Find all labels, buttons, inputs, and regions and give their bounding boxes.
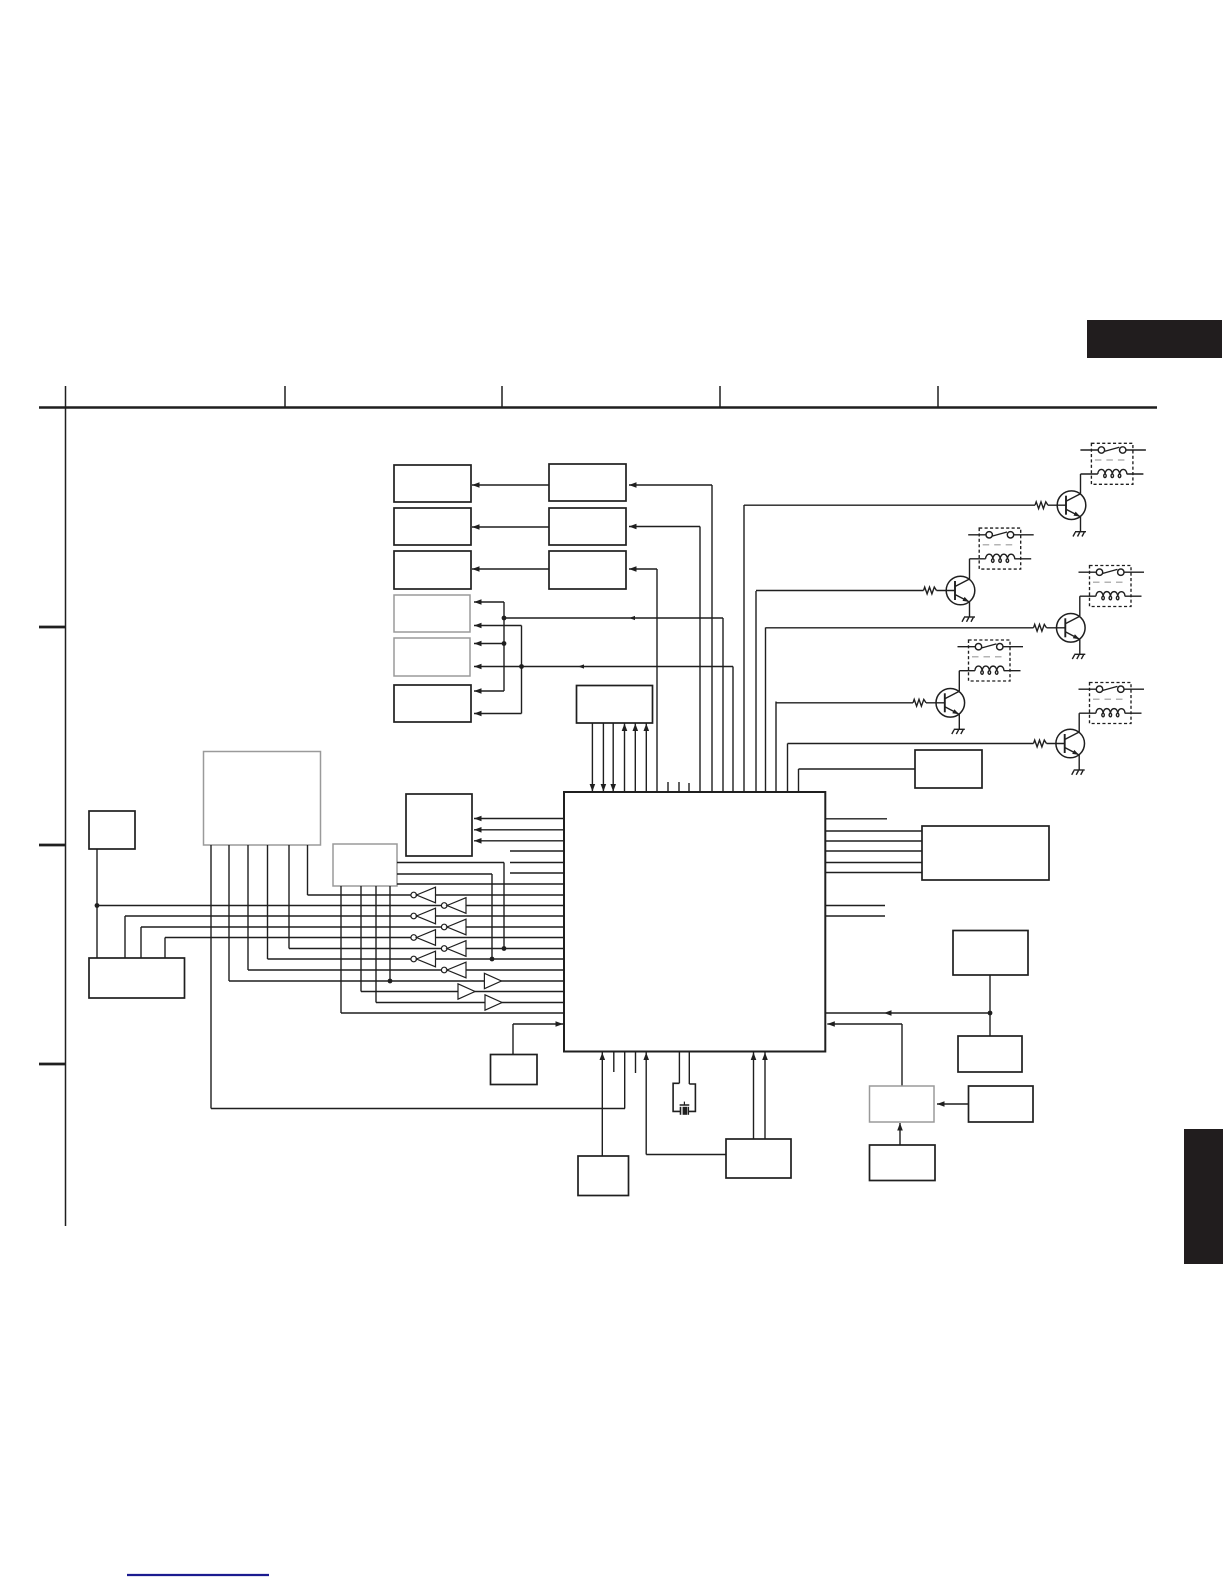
wire IC to boxR1 y=872.5 <box>825 872 922 874</box>
IC left stub y=851 <box>510 850 564 852</box>
wire IC to box-above pin x=624.5 <box>624 723 626 792</box>
wire row y=1013 <box>341 1012 564 1014</box>
wire row y=959 <box>268 958 565 960</box>
wire boxG y=862.5 down to row948.5 <box>397 862 504 864</box>
IC right pin stub y=916 <box>825 915 885 917</box>
wire boxR2 to boxR3 <box>989 975 991 1036</box>
relay RY2 <box>968 528 1033 569</box>
wire IC top to Q4 base (x=776) <box>775 702 777 793</box>
wire boxG pin to row981 <box>389 886 391 981</box>
ground GND1 <box>1073 532 1086 537</box>
wire Q2 emitter to ground <box>969 602 971 617</box>
wire Q4 base <box>776 702 913 704</box>
block: box4 (gray) <box>394 595 470 632</box>
wire coil left of RY2 to Q2 collector <box>970 558 986 560</box>
wire boxG y=884 to IC <box>397 883 564 885</box>
block: box above IC <box>577 686 653 724</box>
block: box R4 (gray) <box>870 1086 935 1122</box>
block: box R3 <box>958 1036 1022 1072</box>
left ruler tick y=627 <box>39 626 66 629</box>
wire IC to boxR1 y=862.5 <box>825 862 922 864</box>
wire boxL2 to IC (x=602) <box>601 1052 603 1157</box>
wire Q5 emitter to ground <box>1078 755 1080 770</box>
transistor Q2 <box>946 576 975 605</box>
buffer D2 <box>458 984 475 999</box>
IC bottom stub x=635.5 <box>635 1052 637 1074</box>
wire boxB to box2 <box>472 526 549 528</box>
inverter A1 <box>411 887 436 903</box>
wire Q1 base <box>744 504 1035 506</box>
block: box3 <box>394 551 471 589</box>
block: box6 <box>394 685 471 722</box>
relay RY3 <box>1079 566 1145 607</box>
wire boxL1 to IC y=1024 <box>512 1024 514 1055</box>
block: boxC <box>549 551 626 589</box>
resistor R2 <box>924 587 937 594</box>
IC left stub y=862.5 <box>510 862 564 864</box>
block: box L2 <box>578 1156 629 1196</box>
relay RY1 <box>1080 443 1146 484</box>
IC top stub pins <box>667 782 669 792</box>
wire row y=970 <box>248 969 564 971</box>
wire boxA to box1 <box>472 484 549 486</box>
left ruler tick y=1064 <box>39 1063 66 1066</box>
block: box H (lower left) <box>89 958 185 998</box>
block: box E <box>406 794 472 856</box>
wire boxG pin to row1002.5 <box>375 886 377 1003</box>
wire IC to boxE y=840.8 <box>474 840 564 842</box>
wire row y=948.5 <box>289 948 564 950</box>
wire row y=905.5 <box>97 905 564 907</box>
resistor R4 <box>913 699 926 706</box>
IC bottom stub x=613.8 <box>613 1052 615 1073</box>
resistor R1 <box>1035 502 1048 509</box>
wire branch to box4/5/6 (x=504) <box>503 602 505 691</box>
wire row y=927 <box>141 926 564 928</box>
block: box R2 <box>953 931 1028 976</box>
wire IC to boxR1 y=841 <box>825 840 922 842</box>
block: box G (gray) <box>333 844 397 886</box>
wire boxR6 to boxR4 <box>899 1123 901 1145</box>
wire to IC right y=1013 <box>825 1012 990 1014</box>
inverter A2 <box>411 908 436 924</box>
wire boxL3 to IC (x=765) <box>764 1052 766 1140</box>
wire boxF pin4 to row959 <box>267 845 269 959</box>
wire IC to box-above pin x=646.3 <box>645 723 647 792</box>
block: box R6 <box>870 1145 936 1181</box>
wire box-above to IC pin x=603.4 <box>602 723 604 792</box>
wire boxF pin1 long route to IC bottom <box>210 845 212 1109</box>
inverter B1 <box>441 898 466 914</box>
block: box L3 <box>726 1139 791 1178</box>
wire IC to boxR1 y=831 <box>825 830 922 832</box>
buffer D1 <box>484 973 501 988</box>
block: box R0 (relay area) <box>915 750 982 788</box>
ruler tick x=502 <box>501 386 503 408</box>
node junction (990,1013) <box>988 1011 993 1016</box>
footer blue link line <box>127 1574 269 1576</box>
wire boxG pin to row1013 <box>340 886 342 1013</box>
wire box-above to IC pin x=592.4 <box>591 723 593 792</box>
transistor Q5 <box>1056 729 1085 758</box>
buffer D3 <box>485 995 502 1010</box>
transistor Q3 <box>1057 614 1086 643</box>
wire boxH pin to row937.5 <box>164 938 166 959</box>
wire boxF pin2 to row981 <box>228 845 230 981</box>
wire IC to boxE y=829.8 <box>474 829 564 831</box>
block: box R5 <box>969 1086 1034 1122</box>
wire boxL3 to IC (x=753.5) <box>753 1052 755 1140</box>
ruler tick x=938 <box>937 386 939 408</box>
block: boxB <box>549 508 626 545</box>
wire IC to boxE y=818.5 <box>474 818 564 820</box>
ground GND3 <box>1072 654 1085 659</box>
ruler tick x=285 <box>284 386 286 408</box>
ground GND4 <box>952 729 965 734</box>
wire Q4 emitter to ground <box>958 714 960 729</box>
wire IC top to Q1 base (x=744) <box>743 505 745 792</box>
wire IC top to Q2 base (x=756) <box>755 591 757 792</box>
wire IC top to Q3 base (x=765.5) <box>765 628 767 793</box>
wire boxH pin to row927 <box>140 927 142 958</box>
wire branch to box4/6 (x=521.5) <box>521 626 523 714</box>
resistor R3 <box>1034 624 1047 631</box>
wire Q3 base <box>766 627 1034 629</box>
wire box-above to IC pin x=613.2 <box>612 723 614 792</box>
block: box2 <box>394 508 471 545</box>
section tab (top right, black) <box>1087 320 1222 358</box>
relay RY4 <box>958 640 1024 681</box>
block: box5 (gray) <box>394 638 470 676</box>
wire IC to box-above pin x=635.3 <box>634 723 636 792</box>
inverter A3 <box>411 930 436 946</box>
wire row y=895 <box>308 894 565 896</box>
page ruler: top horizontal rule <box>39 406 1157 409</box>
inverter B3 <box>441 941 466 957</box>
wire boxF pin5 to row948.5 <box>288 845 290 949</box>
transistor Q1 <box>1057 491 1086 520</box>
IC left stub y=873 <box>510 872 564 874</box>
inverter B4 <box>441 962 466 978</box>
wire coil left of RY5 to Q5 collector <box>1079 712 1096 714</box>
wire row y=991.5 <box>361 991 564 993</box>
crystal element <box>680 1107 682 1115</box>
block: box S (small, upper left) <box>89 811 135 849</box>
wire IC to boxA <box>629 484 712 486</box>
inverter B2 <box>441 919 466 935</box>
wire boxC to box3 <box>472 568 549 570</box>
wire boxS down to boxH <box>96 849 98 958</box>
wire IC top to Q5 base (x=787.5) <box>787 744 789 793</box>
wire IC to boxR1 y=851 <box>825 850 922 852</box>
wire coil left of RY3 to Q3 collector <box>1080 595 1096 597</box>
page border vertical line x=65.5 <box>65 386 67 1226</box>
relay RY5 <box>1079 683 1145 724</box>
wire IC to boxB <box>629 526 700 528</box>
block: box L1 <box>491 1055 538 1085</box>
wire Q2 base <box>756 590 924 592</box>
wire IC to boxL3 (x=646) <box>645 1052 647 1155</box>
wire boxR5 to boxR4 <box>937 1103 969 1105</box>
block: box F (gray, large) <box>204 752 321 846</box>
wire coil left of RY4 to Q4 collector <box>959 670 975 672</box>
wire boxH pin to row916 <box>124 916 126 958</box>
wire net row618 from IC <box>504 617 723 619</box>
ground GND2 <box>962 617 975 622</box>
wire row y=916 <box>125 915 564 917</box>
wire Q3 emitter to ground <box>1079 639 1081 654</box>
wire gray box R4 to IC y=1024 <box>827 1023 902 1025</box>
section tab (right side, black) <box>1184 1129 1223 1264</box>
wire boxF pin3 to row970 <box>247 845 249 970</box>
wire boxF pin6 to row895 <box>307 845 309 895</box>
crystal X1 circuit <box>678 1052 680 1084</box>
wire boxG pin to row991.5 <box>360 886 362 992</box>
block: box R1 (right of IC) <box>922 826 1049 880</box>
wire net row666 from IC <box>474 666 733 668</box>
wire coil left of RY1 to Q1 collector <box>1081 473 1098 475</box>
main microcontroller IC U1 <box>564 792 825 1052</box>
block: box1 (top-left column) <box>394 465 471 502</box>
ruler tick x=720 <box>719 386 721 408</box>
wire row y=937.5 <box>165 937 564 939</box>
left ruler tick y=845 <box>39 844 66 847</box>
wire boxG y=874 down to row959 <box>397 873 492 875</box>
IC right pin stub y=819 <box>825 818 887 820</box>
ground GND5 <box>1072 770 1085 775</box>
node junction (97,905.5) <box>95 903 100 908</box>
inverter A4 <box>411 951 436 967</box>
wire Q1 emitter to ground <box>1080 517 1082 532</box>
IC right pin stub y=905.5 <box>825 905 885 907</box>
wire IC top to box R0 <box>798 769 800 792</box>
wire IC to boxC <box>629 568 657 570</box>
transistor Q4 <box>936 689 965 718</box>
wire row y=981 <box>229 980 564 982</box>
wire Q5 base <box>788 743 1034 745</box>
resistor R5 <box>1034 740 1047 747</box>
wire row y=1002.5 <box>376 1002 564 1004</box>
block: boxA (middle column) <box>549 464 626 501</box>
